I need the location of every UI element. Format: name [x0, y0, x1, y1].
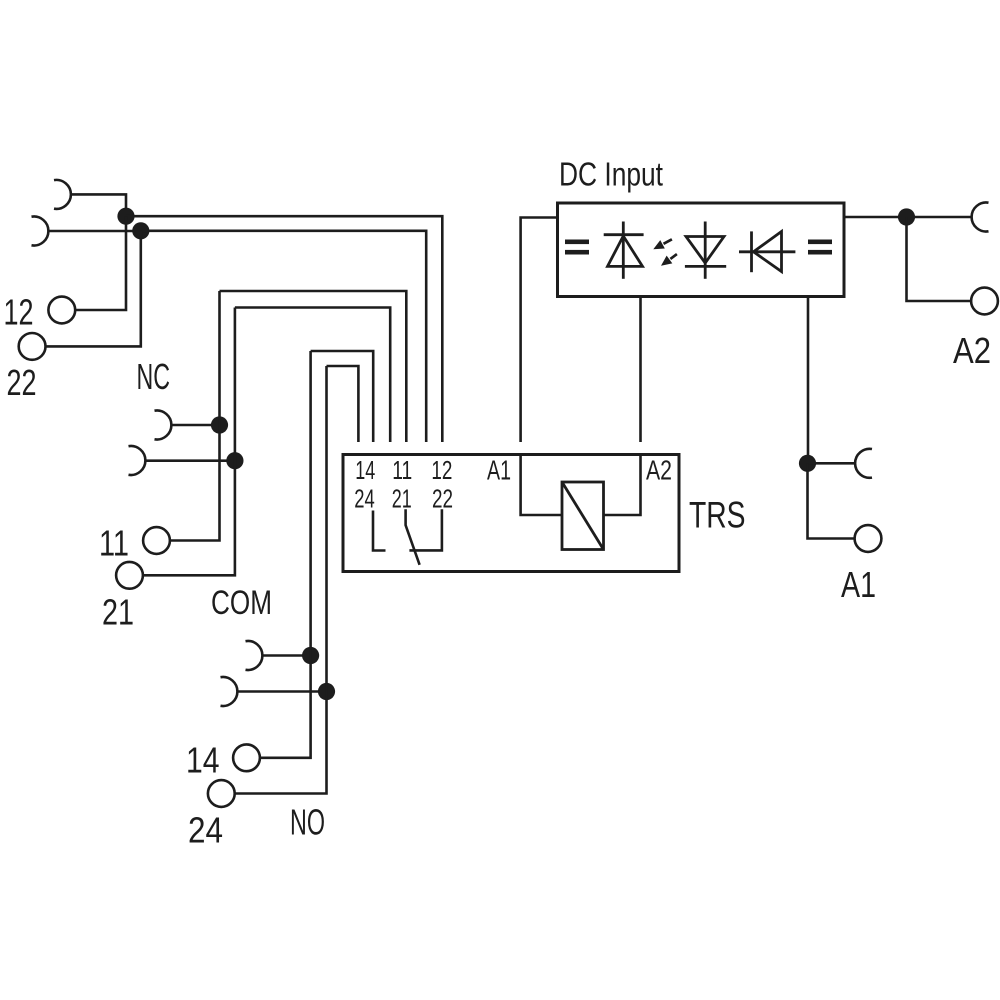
junction J7 — [898, 208, 915, 225]
junction J3 — [211, 416, 228, 433]
clamp terminal NC a — [155, 411, 172, 440]
wire node J8 down to socket A1 — [808, 463, 855, 538]
test socket 11 — [143, 527, 170, 554]
wire node J2 down to socket 22 — [46, 231, 141, 347]
wire COM bus to TRS pin 14 — [327, 366, 359, 442]
svg-text:A1: A1 — [841, 564, 876, 605]
svg-text:NO: NO — [290, 802, 325, 843]
test socket A1 — [855, 525, 882, 552]
wire NC bus to TRS pin 21 — [220, 291, 407, 442]
svg-text:21: 21 — [102, 592, 134, 633]
wire clamp COM b to node J6 — [238, 690, 327, 693]
svg-text:A2: A2 — [646, 455, 672, 486]
test socket 12 — [48, 297, 75, 324]
svg-text:11: 11 — [392, 455, 412, 485]
svg-text:12: 12 — [431, 455, 452, 485]
junction J2 — [132, 222, 149, 239]
wire clamp NC b to node J4 — [146, 459, 235, 462]
junction J6 — [318, 683, 335, 700]
test socket 24 — [208, 780, 235, 807]
wire NC bus down to socket 21 — [143, 308, 235, 576]
svg-text:12: 12 — [4, 292, 34, 333]
DC polarity symbol right = — [808, 240, 832, 255]
test socket 21 — [116, 562, 143, 589]
wire DC input right to clamp A2 — [844, 216, 972, 219]
test socket 14 — [233, 744, 260, 771]
DC polarity symbol left = — [565, 240, 589, 255]
junction J4 — [226, 452, 243, 469]
svg-text:24: 24 — [188, 810, 223, 851]
test socket 22 — [19, 333, 46, 360]
wire from clamp a to node J1 — [71, 194, 126, 216]
wire COM bus down to socket 14 — [260, 351, 311, 758]
clamp terminal NC b — [129, 446, 146, 475]
wire clamp NC a to node J3 — [172, 424, 220, 427]
wire node J2 to TRS pin 12 — [141, 231, 426, 442]
svg-text:TRS: TRS — [689, 495, 746, 536]
wire node J8 to clamp A1 — [808, 462, 856, 465]
junction J8 — [799, 455, 816, 472]
LED D1 — [604, 222, 644, 279]
relay module box TRS — [343, 455, 679, 572]
clamp terminal top-left a — [54, 180, 71, 209]
wire relay coil to TRS pin A2 — [604, 455, 641, 516]
clamp terminal COM b — [221, 677, 238, 706]
svg-text:14: 14 — [355, 455, 375, 485]
svg-text:A2: A2 — [953, 330, 991, 371]
contact common arm 21 — [406, 509, 420, 565]
contact NO terminal 24 — [373, 511, 386, 551]
svg-text:NC: NC — [137, 356, 171, 397]
contact NC terminal 22 — [409, 509, 442, 550]
wire DC input bottom to node J8 — [807, 297, 810, 464]
clamp terminal A1 — [855, 449, 872, 478]
wire NC bus to TRS pin 11 — [235, 308, 390, 443]
wire node J1 down to socket 12 — [75, 216, 126, 310]
wire COM bus to TRS pin 24 — [311, 351, 374, 442]
junction J5 — [302, 647, 319, 664]
wire node J7 down to socket A2 — [907, 217, 972, 301]
wire DC input left to TRS pin A1 — [521, 218, 558, 443]
wire COM bus down to socket 24 — [235, 366, 327, 794]
DC input module box U1 — [558, 203, 845, 297]
wire from clamp b to node J2 — [49, 230, 141, 233]
svg-text:22: 22 — [432, 483, 453, 513]
svg-text:14: 14 — [186, 740, 220, 781]
svg-text:24: 24 — [354, 483, 375, 513]
clamp terminal A2 — [972, 202, 989, 231]
clamp terminal top-left b — [32, 217, 49, 246]
test socket A2 — [971, 288, 998, 315]
junction J1 — [117, 208, 134, 225]
svg-text:22: 22 — [7, 362, 37, 403]
svg-text:11: 11 — [99, 523, 129, 564]
clamp terminal COM a — [246, 641, 263, 670]
optocoupler light arrows — [653, 239, 677, 265]
svg-text:A1: A1 — [487, 455, 511, 486]
wire clamp COM a to node J5 — [263, 654, 311, 657]
wire node J1 to TRS pin 22 — [126, 216, 442, 442]
wire NC bus down to socket 11 — [170, 291, 220, 541]
svg-text:21: 21 — [392, 483, 412, 513]
wire TRS pin A1 to relay coil — [521, 455, 562, 516]
photodiode D2 — [685, 222, 726, 279]
relay coil K1 — [562, 482, 604, 550]
svg-text:COM: COM — [211, 584, 272, 622]
wire DC input bottom to TRS pin A2 — [639, 297, 642, 443]
svg-text:DC Input: DC Input — [559, 155, 663, 192]
diode D3 — [739, 231, 795, 272]
